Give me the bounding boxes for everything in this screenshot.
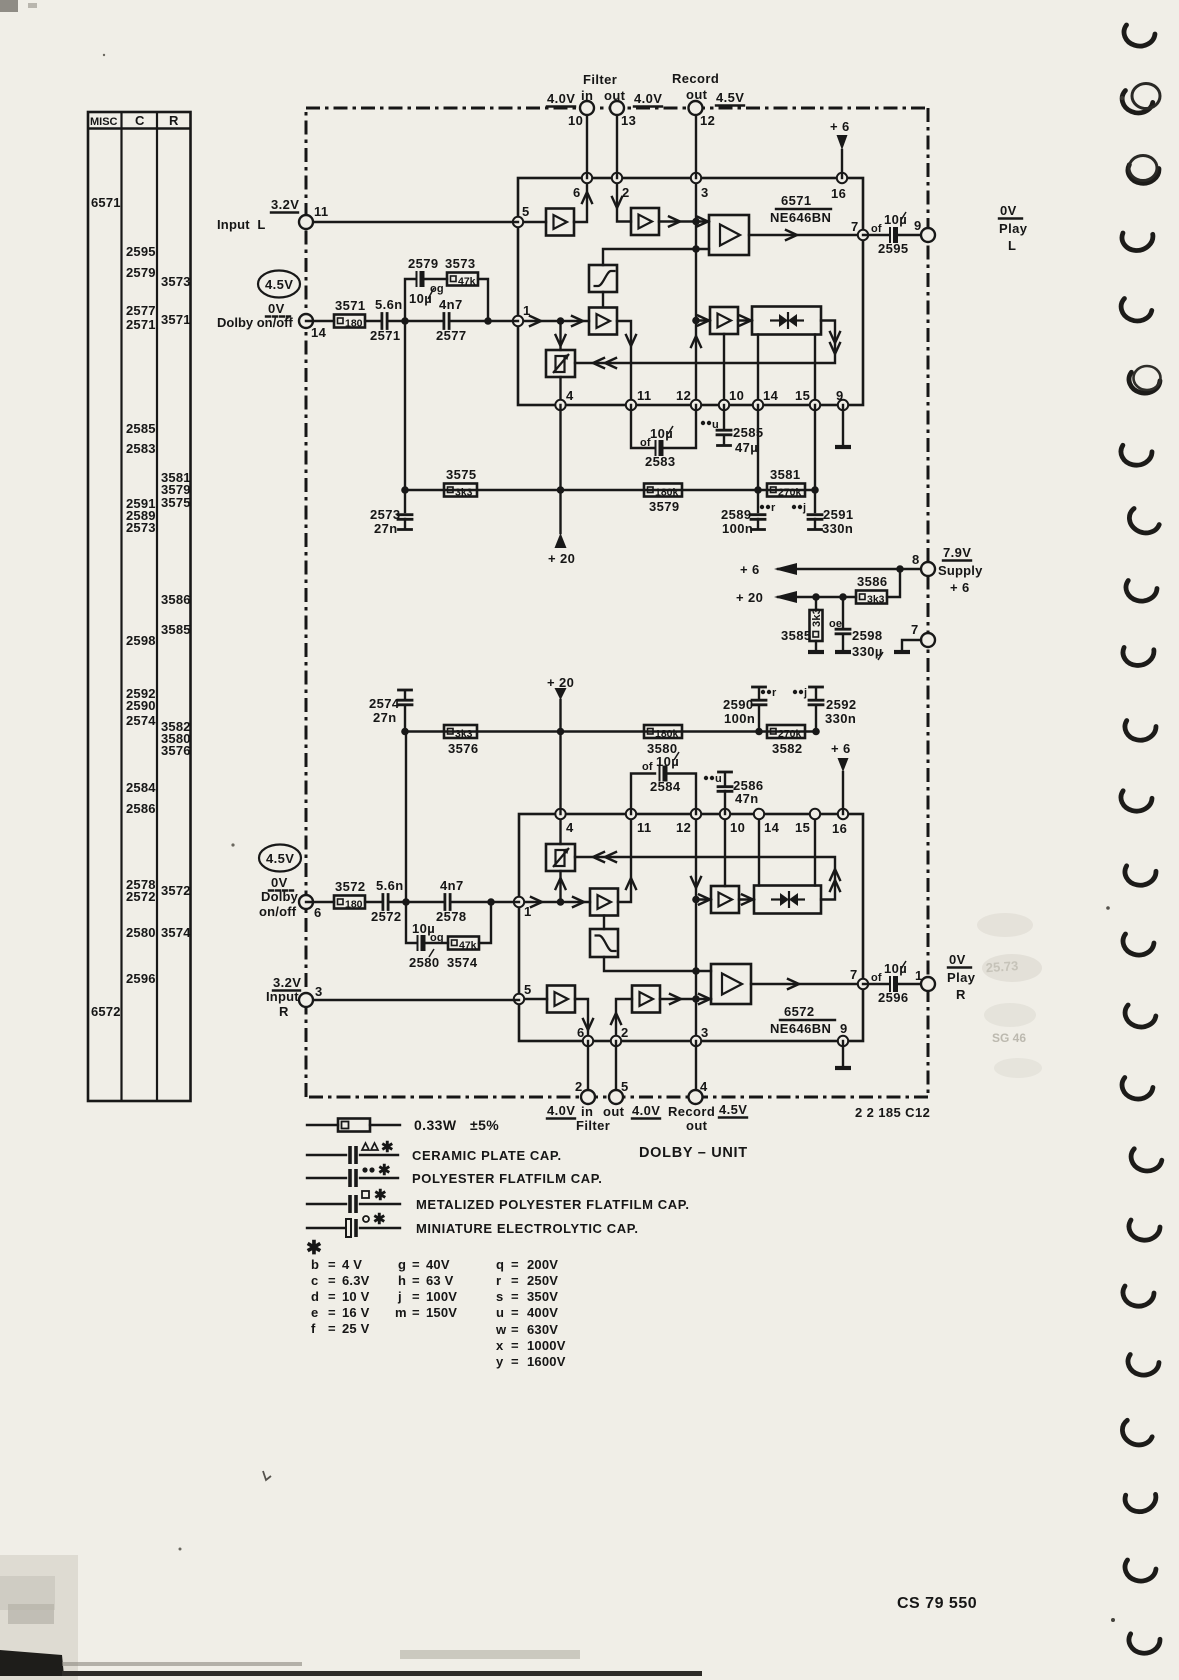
pin 3 ic2 <box>691 1036 701 1046</box>
svg-text:Record: Record <box>668 1104 715 1119</box>
supply wire terminal8 to +6 arrow <box>778 568 928 570</box>
amp E2 (rectifier driver) <box>711 886 739 913</box>
wire diode block to pin14 <box>758 814 760 886</box>
svg-text:R: R <box>279 1004 289 1019</box>
svg-text:3: 3 <box>315 984 323 999</box>
variable attenuator block <box>546 350 575 377</box>
svg-text:11: 11 <box>314 204 329 219</box>
4.0V label left <box>547 91 575 107</box>
svg-text:12: 12 <box>700 113 715 128</box>
svg-text:0V: 0V <box>949 952 966 967</box>
arrow into diode block 2 <box>742 895 753 905</box>
svg-text:u: u <box>496 1305 504 1320</box>
svg-text:x: x <box>496 1338 504 1353</box>
lowpass block (curve) <box>590 929 618 957</box>
svg-text:Record: Record <box>672 71 719 86</box>
svg-text:40V: 40V <box>426 1257 450 1272</box>
0V Play R labels <box>947 952 976 1002</box>
svg-text:2579: 2579 <box>126 265 156 280</box>
pin 7 ic2 <box>858 979 868 989</box>
svg-text:3k3: 3k3 <box>455 728 473 740</box>
capacitor C2574 27n <box>369 690 412 732</box>
filter row wire <box>405 489 815 491</box>
svg-text:3k3: 3k3 <box>811 608 823 627</box>
feedback wire diode to attenuator 2 <box>575 857 835 900</box>
arrow into amp E2 <box>699 895 710 905</box>
capacitor C2584 10u <box>642 752 681 794</box>
double arrow left on feedback <box>593 358 604 368</box>
C2583 loop pins 11-12 <box>631 405 654 448</box>
terminal 10 <box>580 101 594 115</box>
capacitor C2586 47n <box>704 772 764 814</box>
capacitor C2577 4n7 <box>436 297 467 343</box>
wire pin7 to C2595 <box>863 234 889 236</box>
svg-text:4.5V: 4.5V <box>716 90 744 105</box>
svg-text:6572: 6572 <box>784 1004 815 1019</box>
svg-text:h: h <box>398 1273 406 1288</box>
node A2 junction <box>402 898 410 906</box>
node pin4 line junction <box>557 486 565 494</box>
svg-text:3574: 3574 <box>447 955 478 970</box>
svg-text:350V: 350V <box>527 1289 558 1304</box>
svg-text:Dolby: Dolby <box>261 889 299 904</box>
wire pin12 to pin3 vertical <box>695 814 697 1041</box>
4.5V oval 2 <box>259 845 301 872</box>
svg-text:3579: 3579 <box>649 499 680 514</box>
capacitor C2596 10u output <box>871 961 909 1005</box>
svg-text:f: f <box>311 1321 316 1336</box>
svg-text:Play: Play <box>999 221 1028 236</box>
node C2 junction on row2 <box>401 728 409 736</box>
wire amp out down to pin6 <box>575 999 588 1041</box>
svg-text:4.5V: 4.5V <box>719 1102 747 1117</box>
terminal 3 <box>299 993 313 1007</box>
arrow on output <box>786 230 797 240</box>
+6 arrow left <box>740 562 797 577</box>
svg-text:2590: 2590 <box>126 698 156 713</box>
wire lowpass to feedback row <box>604 957 711 971</box>
svg-text:in: in <box>581 88 593 103</box>
4.0V label mid <box>634 91 662 107</box>
wire attenuator to pin4 <box>559 377 561 405</box>
wire pin9 ic2 ground <box>835 1041 851 1068</box>
wire into amp E <box>696 319 710 321</box>
svg-text:7: 7 <box>850 967 858 982</box>
svg-text:+ 20: + 20 <box>548 551 575 566</box>
resistor R3571 180 <box>334 298 366 330</box>
svg-text:on/off: on/off <box>259 904 297 919</box>
pin 6 <box>582 173 592 183</box>
wire diode block to pin15 <box>814 814 816 886</box>
pin 15 <box>810 400 820 410</box>
svg-text:4.0V: 4.0V <box>547 91 575 106</box>
capacitor C2590 100n <box>723 687 777 732</box>
node C2598 junction <box>839 593 847 601</box>
svg-text:2: 2 <box>622 185 630 200</box>
svg-text:6572: 6572 <box>91 1004 121 1019</box>
wire diode block to pin15 <box>814 335 816 406</box>
svg-text:330µ: 330µ <box>852 644 883 659</box>
svg-text:14: 14 <box>311 325 327 340</box>
svg-text:+ 6: + 6 <box>830 119 850 134</box>
svg-text:2573: 2573 <box>126 520 156 535</box>
resistor R3574 47k <box>447 937 479 971</box>
node R3585 junction <box>812 593 820 601</box>
legend resistor symbol <box>307 1117 499 1133</box>
capacitor C2592 330n <box>793 687 857 732</box>
svg-text:3.2V: 3.2V <box>273 975 301 990</box>
svg-text:4: 4 <box>566 388 574 403</box>
svg-text:Supply: Supply <box>938 563 983 578</box>
svg-text:METALIZED POLYESTER FLATFILM: METALIZED POLYESTER FLATFILM CAP. <box>416 1197 690 1212</box>
svg-text:g: g <box>398 1257 406 1272</box>
svg-text:2583: 2583 <box>645 454 676 469</box>
wire R3586 to +20 arrow <box>778 596 856 598</box>
svg-text:1: 1 <box>915 968 923 983</box>
node pin15 line junction 2 <box>812 728 820 736</box>
arrow up to pin6 <box>582 192 592 203</box>
pin 16 ic2 <box>838 809 848 819</box>
wire pin7 ic2 to C2596 <box>863 983 889 985</box>
wire amp C2 out to pin7 <box>751 983 863 985</box>
svg-text:3581: 3581 <box>770 467 801 482</box>
svg-text:✱: ✱ <box>374 1187 387 1204</box>
svg-text:3582: 3582 <box>772 741 803 756</box>
svg-text:4.0V: 4.0V <box>632 1103 660 1118</box>
filter row 2 wire <box>405 730 816 732</box>
svg-text:10µ: 10µ <box>884 212 907 227</box>
wire amp E2 to diode block <box>739 898 754 900</box>
amp A2ch (pin5 buffer) <box>547 986 575 1013</box>
svg-text:2572: 2572 <box>126 889 156 904</box>
4.5V oval <box>258 271 300 298</box>
wire attenuator to pin4 <box>559 814 561 844</box>
svg-text:MINIATURE ELECTROLYTIC CAP.: MINIATURE ELECTROLYTIC CAP. <box>416 1221 639 1236</box>
svg-text:9: 9 <box>914 218 922 233</box>
capacitor C2595 10u output <box>871 212 909 256</box>
wire down to attenuator <box>559 321 561 350</box>
wire C2596 to terminal 1 <box>899 983 928 985</box>
svg-text:5.6n: 5.6n <box>375 297 403 312</box>
svg-text:3573: 3573 <box>161 274 191 289</box>
svg-text:10µ: 10µ <box>884 961 907 976</box>
C2583 loop right <box>664 405 696 448</box>
svg-text:NE646BN: NE646BN <box>770 1021 831 1036</box>
svg-text:5: 5 <box>524 982 532 997</box>
bypass branch 2 wire up <box>479 902 491 943</box>
svg-text:2589: 2589 <box>721 507 752 522</box>
node B2 junction <box>487 898 495 906</box>
pin 14 <box>753 400 763 410</box>
svg-text:2584: 2584 <box>126 780 156 795</box>
Input R labels <box>266 975 301 1019</box>
wire amp E to diode block <box>738 319 752 321</box>
resistor R3585 3k3 vertical <box>781 597 824 652</box>
capacitor C2572 5.6n <box>371 878 404 924</box>
node pin3 junction <box>692 218 700 226</box>
svg-text:=: = <box>328 1257 336 1272</box>
svg-text:100n: 100n <box>722 521 753 536</box>
svg-text:3574: 3574 <box>161 925 191 940</box>
svg-text:=: = <box>412 1257 420 1272</box>
svg-text:m: m <box>395 1305 407 1320</box>
svg-text:3573: 3573 <box>445 256 476 271</box>
svg-text:7: 7 <box>911 622 919 637</box>
node pin15 line junction <box>811 486 819 494</box>
node pin1 branch <box>557 898 565 906</box>
wire pin4 down <box>559 405 561 533</box>
wire node A down to 3k3 row <box>404 321 406 490</box>
svg-text:0.33W: 0.33W <box>414 1117 457 1133</box>
svg-text:2596: 2596 <box>878 990 909 1005</box>
wire C2579 to R3573 <box>425 278 447 280</box>
svg-text:9: 9 <box>836 388 844 403</box>
svg-text:3576: 3576 <box>448 741 479 756</box>
amp E (rectifier driver) <box>710 307 738 334</box>
wire pin1 into amp D2 <box>519 901 590 903</box>
svg-text:out: out <box>686 1118 708 1133</box>
svg-text:j: j <box>803 687 807 699</box>
wire pin5 to amp A <box>518 221 546 223</box>
svg-text:270k: 270k <box>778 728 802 740</box>
svg-text:+ 6: + 6 <box>831 741 851 756</box>
svg-text:±5%: ±5% <box>470 1117 499 1133</box>
pin 10 ic2 <box>720 809 730 819</box>
svg-text:5: 5 <box>522 204 530 219</box>
wire terminal10 to pin6 <box>586 108 588 178</box>
node pin1 branch <box>557 317 565 325</box>
arrow down on pin12 line <box>691 877 701 888</box>
svg-text:2: 2 <box>621 1025 629 1040</box>
svg-text:SG 46: SG 46 <box>992 1031 1026 1045</box>
pin 12 <box>691 400 701 410</box>
svg-text:2577: 2577 <box>436 328 467 343</box>
svg-text:2595: 2595 <box>878 241 909 256</box>
resistor R3573 47k <box>445 256 478 288</box>
svg-text:27n: 27n <box>373 710 397 725</box>
svg-text:11: 11 <box>637 820 652 835</box>
svg-text:✱: ✱ <box>381 1139 394 1156</box>
pin 2 <box>612 173 622 183</box>
op-amp C2 (main output amp) <box>711 964 751 1004</box>
svg-text:3575: 3575 <box>446 467 477 482</box>
capacitor C2580 10u <box>409 921 444 970</box>
svg-text:s: s <box>496 1289 503 1304</box>
svg-text:2571: 2571 <box>370 328 401 343</box>
wire terminal13 to pin2 <box>616 108 618 178</box>
wire pin14 down to row <box>757 405 759 490</box>
amp D2 (sidechain) <box>590 889 618 916</box>
svg-text:270k: 270k <box>778 487 802 499</box>
terminal 5 <box>609 1090 623 1104</box>
svg-text:47n: 47n <box>735 791 759 806</box>
wire amp C out to pin 7 <box>749 234 863 236</box>
wire terminal6 to R3572 <box>306 901 334 903</box>
svg-text:R: R <box>956 987 966 1002</box>
svg-text:1: 1 <box>523 303 531 318</box>
double arrow left on feedback 2 <box>593 852 604 862</box>
svg-text:6: 6 <box>577 1025 585 1040</box>
node C junction on filter row <box>401 486 409 494</box>
svg-text:in: in <box>581 1104 593 1119</box>
svg-text:CERAMIC PLATE CAP.: CERAMIC PLATE CAP. <box>412 1148 562 1163</box>
svg-text:u: u <box>715 773 722 785</box>
svg-text:=: = <box>511 1273 519 1288</box>
svg-text:Filter: Filter <box>583 72 617 87</box>
arrow up from pin2 <box>611 1013 621 1024</box>
svg-text:oe: oe <box>829 618 842 630</box>
wire attenuator down to pin1 line <box>559 871 561 902</box>
pin 15 ic2 <box>810 809 820 819</box>
svg-text:4: 4 <box>566 820 574 835</box>
wire pin3 ic2 to terminal 4 <box>695 1041 697 1097</box>
arrow after pin1 <box>530 316 541 326</box>
svg-text:u: u <box>712 419 719 431</box>
svg-text:q: q <box>496 1257 504 1272</box>
svg-text:3585: 3585 <box>781 628 812 643</box>
limiter block (S-curve) <box>589 265 617 292</box>
svg-text:3k3: 3k3 <box>867 594 885 606</box>
svg-text:15: 15 <box>795 820 810 835</box>
svg-text:=: = <box>511 1354 519 1369</box>
svg-text:10µ: 10µ <box>650 426 673 441</box>
svg-text:47k: 47k <box>458 276 476 288</box>
pin 5 ic2 <box>514 994 524 1004</box>
svg-text:4n7: 4n7 <box>439 297 463 312</box>
op-amp C (main output amp) <box>709 215 749 255</box>
svg-text:3.2V: 3.2V <box>271 197 299 212</box>
4.5V label <box>716 90 744 106</box>
svg-text:=: = <box>412 1273 420 1288</box>
arrow up to attenuator <box>556 878 566 889</box>
svg-text:7: 7 <box>851 219 859 234</box>
svg-text:=: = <box>511 1322 519 1337</box>
svg-text:out: out <box>603 1104 625 1119</box>
svg-text:C: C <box>135 113 145 128</box>
feedback wire diode to attenuator <box>575 321 835 364</box>
pin number labels IC2 <box>524 820 858 1040</box>
wire pin5 to amp <box>519 998 547 1000</box>
capacitor C2578 4n7 <box>436 878 467 924</box>
wire amp A out up to pin 6 <box>574 178 587 222</box>
wire R3572 to C2572 <box>365 901 382 903</box>
svg-text:4.0V: 4.0V <box>634 91 662 106</box>
svg-text:14: 14 <box>763 388 779 403</box>
svg-text:4 V: 4 V <box>342 1257 362 1272</box>
resistor R3581 270k <box>767 467 805 499</box>
svg-text:3571: 3571 <box>161 312 191 327</box>
svg-text:=: = <box>511 1289 519 1304</box>
svg-text:2571: 2571 <box>126 317 156 332</box>
legend miniature electrolytic cap <box>307 1211 639 1237</box>
pin 5 <box>513 217 523 227</box>
bypass branch wire down <box>478 279 488 321</box>
svg-text:=: = <box>511 1338 519 1353</box>
svg-text:of: of <box>871 223 882 235</box>
svg-text:of: of <box>642 761 653 773</box>
wire terminal14 to R3571 <box>306 320 334 322</box>
svg-text:1000V: 1000V <box>527 1338 566 1353</box>
svg-text:✱: ✱ <box>378 1162 391 1179</box>
terminal 12 <box>689 101 703 115</box>
svg-text:c: c <box>311 1273 318 1288</box>
svg-text:16 V: 16 V <box>342 1305 370 1320</box>
resistor R3576 3k3 <box>444 725 479 756</box>
svg-text:3571: 3571 <box>335 298 366 313</box>
arrow into amp D <box>572 316 583 326</box>
svg-text:10 V: 10 V <box>342 1289 370 1304</box>
pin 9 ic2 <box>838 1036 848 1046</box>
svg-text:Input: Input <box>266 989 299 1004</box>
svg-text:1: 1 <box>524 904 532 919</box>
svg-text:8: 8 <box>912 552 920 567</box>
amp B (record path) <box>631 208 659 235</box>
node supply junction <box>896 565 904 573</box>
pin 11 ic2 <box>626 809 636 819</box>
pin 10 <box>719 400 729 410</box>
wire node A2 up to row2 <box>405 732 407 903</box>
top terminal labels <box>568 71 719 128</box>
svg-text:2579: 2579 <box>408 256 439 271</box>
wire C2572 to node A2 <box>389 901 406 903</box>
terminal 8 supply <box>921 562 935 576</box>
pin number labels IC1 <box>522 185 859 403</box>
0V dashed label <box>266 301 290 317</box>
variable attenuator block R <box>546 844 575 871</box>
node pin14 line junction <box>754 486 762 494</box>
terminal 14 <box>299 314 313 328</box>
svg-text:=: = <box>511 1257 519 1272</box>
wire pin15 down to row <box>814 405 816 490</box>
svg-text:100V: 100V <box>426 1289 457 1304</box>
svg-text:180k: 180k <box>655 487 679 499</box>
svg-text:2574: 2574 <box>369 696 400 711</box>
terminal 4 <box>689 1090 703 1104</box>
svg-text:14: 14 <box>764 820 780 835</box>
capacitor C2571 5.6n <box>370 297 403 343</box>
wire node A to C2577 <box>405 320 443 322</box>
svg-text:e: e <box>311 1305 318 1320</box>
svg-text:MISC: MISC <box>90 116 118 128</box>
svg-text:180: 180 <box>345 899 363 911</box>
wire limiter to amp D <box>602 292 604 307</box>
svg-text:POLYESTER FLATFILM CAP.: POLYESTER FLATFILM CAP. <box>412 1171 603 1186</box>
svg-text:12: 12 <box>676 820 691 835</box>
svg-text:150V: 150V <box>426 1305 457 1320</box>
+6 supply arrow to pin16 ic2 <box>831 741 851 814</box>
diode rectifier block <box>752 307 821 335</box>
Input L labels <box>217 197 299 232</box>
bottom terminal labels <box>575 1079 715 1133</box>
svg-text:4.5V: 4.5V <box>266 851 294 866</box>
svg-text:10: 10 <box>568 113 583 128</box>
bypass branch 2 wire down <box>406 902 416 943</box>
svg-text:2580: 2580 <box>409 955 440 970</box>
4.5V label bottom <box>719 1102 747 1118</box>
svg-text:2574: 2574 <box>126 713 156 728</box>
node B (junction before pin1) <box>484 317 492 325</box>
svg-text:25 V: 25 V <box>342 1321 370 1336</box>
wire amp D out down to pin 11 <box>617 321 631 405</box>
svg-text:2586: 2586 <box>126 801 156 816</box>
svg-text:Dolby on/off: Dolby on/off <box>217 315 293 330</box>
svg-text:4.5V: 4.5V <box>265 277 293 292</box>
svg-text:5.6n: 5.6n <box>376 878 404 893</box>
svg-text:=: = <box>328 1273 336 1288</box>
svg-text:✱: ✱ <box>306 1238 322 1259</box>
svg-text:100n: 100n <box>724 711 755 726</box>
svg-text:L: L <box>1008 238 1016 253</box>
